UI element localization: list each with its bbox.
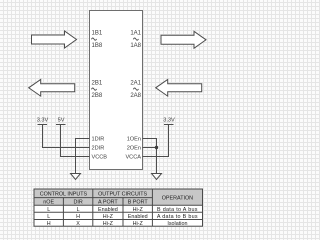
svg-text:1A8: 1A8 — [130, 43, 141, 49]
svg-text:3.3V: 3.3V — [37, 118, 49, 124]
svg-text:1OEn: 1OEn — [127, 137, 141, 143]
svg-text:2DIR: 2DIR — [92, 146, 105, 152]
svg-text:Hi-Z: Hi-Z — [133, 221, 144, 227]
svg-text:1B8: 1B8 — [92, 43, 103, 49]
svg-text:A data to B bus: A data to B bus — [157, 214, 198, 220]
svg-text:2B1: 2B1 — [92, 81, 103, 87]
svg-text:B data to A bus: B data to A bus — [157, 207, 198, 213]
svg-text:H: H — [76, 214, 80, 220]
svg-text:DIR: DIR — [73, 199, 82, 205]
svg-text:L: L — [47, 214, 50, 220]
svg-text:Enabled: Enabled — [98, 207, 118, 213]
svg-text:B PORT: B PORT — [128, 199, 149, 205]
svg-text:2B8: 2B8 — [92, 93, 103, 99]
svg-text:L: L — [77, 207, 80, 213]
svg-text:1A1: 1A1 — [130, 31, 141, 37]
svg-text:1B1: 1B1 — [92, 31, 103, 37]
svg-text:OUTPUT CIRCUITS: OUTPUT CIRCUITS — [98, 192, 147, 198]
svg-text:Hi-Z: Hi-Z — [133, 207, 144, 213]
svg-text:Hi-Z: Hi-Z — [103, 214, 114, 220]
svg-text:A PORT: A PORT — [98, 199, 118, 205]
svg-text:nOE: nOE — [43, 199, 54, 205]
svg-text:CONTROL INPUTS: CONTROL INPUTS — [40, 192, 88, 198]
svg-text:Hi-Z: Hi-Z — [103, 221, 114, 227]
svg-text:2A1: 2A1 — [130, 81, 141, 87]
svg-text:VCCB: VCCB — [92, 155, 108, 161]
svg-text:H: H — [47, 221, 51, 227]
svg-text:5V: 5V — [58, 118, 65, 124]
svg-text:2OEn: 2OEn — [127, 146, 141, 152]
svg-text:L: L — [47, 207, 50, 213]
svg-text:2A8: 2A8 — [130, 93, 141, 99]
svg-text:Enabled: Enabled — [128, 214, 148, 220]
svg-text:OPERATION: OPERATION — [162, 196, 193, 202]
svg-text:3.3V: 3.3V — [163, 118, 175, 124]
svg-text:1DIR: 1DIR — [92, 137, 105, 143]
svg-text:VCCA: VCCA — [125, 155, 141, 161]
svg-text:Isolation: Isolation — [167, 221, 187, 227]
svg-text:X: X — [76, 221, 80, 227]
